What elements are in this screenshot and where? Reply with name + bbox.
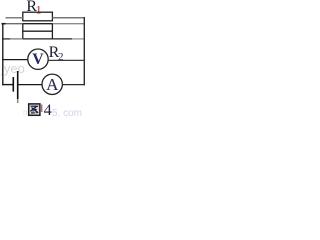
svg-text:5. com: 5. com <box>52 108 82 118</box>
wire from left bus to battery <box>2 84 12 86</box>
svg-text:jyeo: jyeo <box>0 61 25 76</box>
wire right of ammeter <box>62 84 85 86</box>
ammeter A <box>42 74 62 94</box>
battery long plate <box>17 71 19 103</box>
wire rail node top of box2 <box>2 23 85 25</box>
voltmeter V <box>28 49 48 69</box>
resistor box2 upper <box>22 24 53 39</box>
caption glyph tu (figure) <box>29 104 40 115</box>
right bus wire <box>83 17 85 85</box>
label R2 <box>49 44 64 63</box>
wire rail bottom of box2 <box>2 38 85 40</box>
wire right of voltmeter <box>48 59 85 61</box>
wire left of voltmeter <box>2 59 28 61</box>
battery short plate <box>12 77 14 92</box>
svg-text:4: 4 <box>44 100 52 118</box>
watermark tick <box>41 105 43 113</box>
label R1 <box>26 0 41 16</box>
left bus wire <box>2 23 4 85</box>
svg-text:1: 1 <box>36 2 42 16</box>
resistor R1 <box>23 12 53 21</box>
wire right of R1 <box>52 17 85 19</box>
svg-text:V: V <box>32 51 44 68</box>
svg-text:2: 2 <box>58 51 64 63</box>
wire left of R1 <box>6 17 23 19</box>
svg-text:A: A <box>46 75 59 94</box>
wire battery to ammeter <box>18 84 42 86</box>
